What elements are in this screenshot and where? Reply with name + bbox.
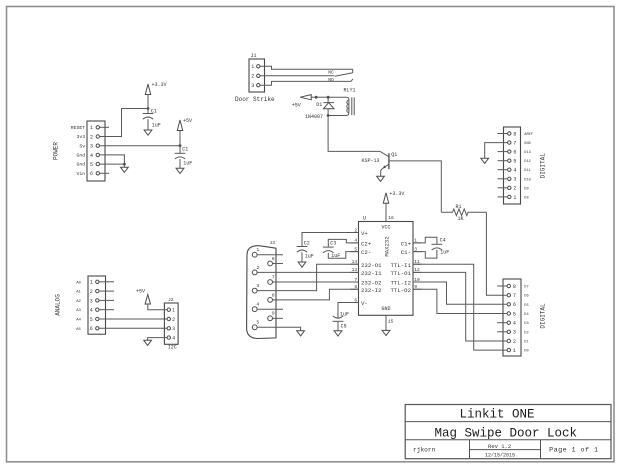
svg-text:D7: D7 xyxy=(524,286,528,290)
svg-text:1: 1 xyxy=(513,348,516,354)
svg-text:D5: D5 xyxy=(524,304,528,308)
label DIGITAL (vertical, top) xyxy=(540,153,547,179)
svg-text:5: 5 xyxy=(513,311,516,317)
wire J3 pin1 stub xyxy=(257,254,283,256)
svg-text:D12: D12 xyxy=(524,160,530,164)
ground (J3 pin5) xyxy=(297,331,305,336)
svg-text:U: U xyxy=(363,215,366,221)
label ANALOG (vertical) xyxy=(55,294,62,316)
relay RLY1 coil xyxy=(344,87,356,115)
ground (below C5) xyxy=(334,331,342,336)
svg-text:TTL-O1: TTL-O1 xyxy=(391,270,412,277)
wire DIGITAL1 pin8 stub xyxy=(498,133,508,135)
wire DIGITAL2 pin4 stub xyxy=(497,322,507,324)
svg-text:9: 9 xyxy=(272,311,275,317)
wire U1 TTL-O2 to DIGITAL2 pin5 (D4) xyxy=(413,289,507,313)
svg-text:RESET: RESET xyxy=(71,125,86,131)
ground (below C1 at +3.3V) xyxy=(144,130,152,135)
svg-text:8: 8 xyxy=(513,284,516,290)
svg-text:MAX232: MAX232 xyxy=(383,236,390,256)
svg-text:1N4007: 1N4007 xyxy=(305,114,323,120)
wire POWER pin4 to ground xyxy=(100,155,125,164)
svg-text:Door Strike: Door Strike xyxy=(235,96,275,103)
svg-text:232-O1: 232-O1 xyxy=(361,262,382,269)
svg-text:7: 7 xyxy=(513,141,516,147)
wire J3 pin8 to U1 232-I2 xyxy=(273,289,359,300)
svg-text:4: 4 xyxy=(172,336,175,342)
ground (U1 GND pin15) xyxy=(382,323,390,336)
svg-text:2: 2 xyxy=(90,289,93,295)
wire DIGITAL1 pin2 stub xyxy=(498,187,508,189)
svg-text:C5: C5 xyxy=(341,324,347,330)
wire J1 pin1 to relay common xyxy=(260,66,353,69)
wire DIGITAL1 pin5 stub xyxy=(498,160,508,162)
svg-text:4: 4 xyxy=(256,302,259,308)
svg-text:D13: D13 xyxy=(524,151,530,155)
svg-text:GND: GND xyxy=(381,306,390,312)
svg-text:Mag Swipe Door Lock: Mag Swipe Door Lock xyxy=(435,426,578,440)
svg-text:C4: C4 xyxy=(440,238,446,244)
svg-text:+3.3V: +3.3V xyxy=(389,191,404,197)
svg-text:12/15/2015: 12/15/2015 xyxy=(485,452,515,458)
wire U1 V+ to C2 xyxy=(302,233,359,247)
svg-text:Gnd: Gnd xyxy=(77,162,86,168)
wire DIGITAL1 pin3 stub xyxy=(498,178,508,180)
svg-text:3: 3 xyxy=(256,283,259,289)
svg-text:3: 3 xyxy=(172,326,175,332)
svg-text:C1+: C1+ xyxy=(401,241,412,248)
svg-text:C1: C1 xyxy=(151,109,157,115)
relay NO contact tick xyxy=(351,79,353,81)
svg-text:J1: J1 xyxy=(251,53,257,59)
svg-text:6: 6 xyxy=(90,326,93,332)
svg-text:8: 8 xyxy=(513,131,516,137)
svg-text:3: 3 xyxy=(513,177,516,183)
svg-text:1uF: 1uF xyxy=(305,253,314,259)
svg-text:D1: D1 xyxy=(524,341,528,345)
wire U1 C1+ to C4 xyxy=(413,237,437,244)
wire DIGITAL1 pin4 stub xyxy=(498,169,508,171)
svg-text:5: 5 xyxy=(90,162,93,168)
svg-text:J3: J3 xyxy=(270,240,276,246)
svg-text:2: 2 xyxy=(256,265,259,271)
svg-text:A0: A0 xyxy=(76,281,81,285)
ground (I2C pin4) xyxy=(144,340,152,345)
wire POWER pin5 to ground xyxy=(100,163,125,165)
svg-text:7: 7 xyxy=(513,293,516,299)
svg-text:1: 1 xyxy=(90,280,93,286)
wire U1 TTL-I1 to DIGITAL2 pin1 (D0) xyxy=(413,264,507,350)
svg-text:A2: A2 xyxy=(76,300,81,304)
svg-text:VCC: VCC xyxy=(381,225,390,231)
wire DIGITAL2 pin3 stub xyxy=(497,331,507,333)
svg-text:2: 2 xyxy=(172,317,175,323)
svg-text:D1: D1 xyxy=(316,102,322,108)
svg-text:NC: NC xyxy=(328,70,334,76)
svg-text:C2+: C2+ xyxy=(361,241,372,248)
wire POWER pin1 stub xyxy=(100,126,110,128)
wire U1 TTL-O1 to DIGITAL2 pin2 (D1) xyxy=(413,272,507,341)
wire ANALOG pin1 stub xyxy=(99,281,114,283)
svg-text:C3: C3 xyxy=(330,241,336,247)
svg-text:5: 5 xyxy=(256,320,259,326)
resistor R1 1K xyxy=(441,204,486,222)
svg-text:4: 4 xyxy=(90,153,93,159)
power +5V (near POWER) xyxy=(177,118,192,146)
power +5V (door strike) xyxy=(292,95,316,109)
svg-text:16: 16 xyxy=(388,215,394,221)
ground (Q1 emitter) xyxy=(377,176,385,181)
svg-text:1uF: 1uF xyxy=(440,250,449,256)
svg-text:POWER: POWER xyxy=(53,142,60,160)
wire C4 to U1 C1- xyxy=(413,250,437,258)
capacitor C1 (at +5V rail) xyxy=(175,146,193,169)
ground (POWER pins 4/5) xyxy=(121,164,129,172)
svg-text:Vin: Vin xyxy=(77,171,86,177)
wire R1 to DIGITAL2 pin7 (D6) xyxy=(486,212,507,295)
svg-text:KSP-13: KSP-13 xyxy=(362,158,380,164)
connector J1 Door Strike (3-pin) xyxy=(249,53,265,92)
diode D1 1N4007 xyxy=(305,97,334,120)
wire relay coil bottom to D1/Q1 xyxy=(328,115,346,117)
svg-text:RLY1: RLY1 xyxy=(344,87,356,93)
wire DIGITAL1 pin7 GND to ground xyxy=(485,143,508,159)
svg-text:C2: C2 xyxy=(304,240,310,246)
transistor Q1 KSP-13 xyxy=(362,151,398,176)
svg-text:AREF: AREF xyxy=(524,133,533,137)
label DIGITAL (vertical, bottom) xyxy=(540,303,547,329)
wire relay coil top to +5V/D1 xyxy=(328,96,346,98)
svg-text:D11: D11 xyxy=(524,169,530,173)
svg-text:1: 1 xyxy=(172,308,175,314)
svg-text:2: 2 xyxy=(90,134,93,140)
svg-text:3v3: 3v3 xyxy=(77,134,86,140)
svg-text:D3: D3 xyxy=(524,322,528,326)
svg-text:Q1: Q1 xyxy=(391,152,397,158)
wire J3 pin9 stub xyxy=(273,317,283,319)
power +3.3V (U1 VCC pin16) xyxy=(383,191,404,213)
svg-text:V-: V- xyxy=(361,300,368,307)
svg-text:2: 2 xyxy=(251,74,254,80)
svg-text:+5V: +5V xyxy=(183,118,192,124)
svg-text:4: 4 xyxy=(90,308,93,314)
wire J3 pin6 stub xyxy=(273,263,283,265)
svg-text:+5V: +5V xyxy=(136,288,145,294)
title block xyxy=(405,405,611,459)
svg-text:6: 6 xyxy=(513,150,516,156)
svg-text:I2C: I2C xyxy=(168,344,177,350)
connector J2 I2C (4-pin) xyxy=(164,297,178,350)
svg-text:232-O2: 232-O2 xyxy=(361,280,382,287)
label POWER (vertical) xyxy=(53,142,60,160)
connector CONN3 DIGITAL D8-D13 (8-pin header) xyxy=(504,127,533,204)
svg-text:D8: D8 xyxy=(524,196,528,200)
wire J3 pin5 to ground xyxy=(257,327,300,330)
svg-text:TTL-I2: TTL-I2 xyxy=(391,280,412,287)
svg-text:+5V: +5V xyxy=(292,103,301,109)
svg-text:232-I1: 232-I1 xyxy=(361,270,382,277)
svg-text:ANALOG: ANALOG xyxy=(55,294,62,316)
svg-text:rjkorn: rjkorn xyxy=(413,446,436,453)
wire POWER pin6 stub xyxy=(100,172,110,174)
svg-text:1K: 1K xyxy=(458,216,464,222)
svg-text:6: 6 xyxy=(90,171,93,177)
op-amp U1 MAX232 (RS232 transceiver) xyxy=(350,213,421,324)
svg-text:Rev 1.2: Rev 1.2 xyxy=(488,443,511,450)
wire ANALOG pin3 stub xyxy=(99,299,114,301)
node junction D1 anode xyxy=(327,114,330,117)
svg-text:DIGITAL: DIGITAL xyxy=(540,153,547,179)
wire U1 C2+ to C3 xyxy=(328,239,358,247)
svg-text:4: 4 xyxy=(513,321,516,327)
svg-text:1: 1 xyxy=(90,125,93,131)
svg-text:4: 4 xyxy=(513,168,516,174)
wire U1 TTL-I2 to DIGITAL2 pin6 (D5) xyxy=(413,282,507,304)
svg-text:2: 2 xyxy=(513,339,516,345)
relay armature xyxy=(335,73,353,76)
wire ANALOG pin4 stub xyxy=(99,309,114,311)
label NC xyxy=(328,70,334,76)
connector J3 DB9 serial xyxy=(247,240,276,338)
svg-text:NO: NO xyxy=(328,77,334,83)
wire I2C pin4 to ground xyxy=(148,338,168,341)
wire Q1 base to R1 xyxy=(389,161,441,212)
svg-text:A1: A1 xyxy=(76,291,81,295)
wire J1 pin2 to relay NC xyxy=(260,75,335,77)
svg-text:5v: 5v xyxy=(79,143,85,149)
svg-text:3: 3 xyxy=(513,330,516,336)
svg-text:6: 6 xyxy=(513,302,516,308)
svg-text:1uF: 1uF xyxy=(183,161,192,167)
svg-text:A5: A5 xyxy=(76,328,81,332)
node junction D1 cathode xyxy=(327,96,330,99)
svg-text:6: 6 xyxy=(272,256,275,262)
svg-text:C1: C1 xyxy=(182,147,188,153)
wire DIGITAL1 pin1 stub xyxy=(498,196,508,198)
label Door Strike xyxy=(235,96,275,103)
capacitor C3 1uF xyxy=(323,241,340,260)
svg-text:3: 3 xyxy=(90,298,93,304)
svg-text:A3: A3 xyxy=(76,309,81,313)
svg-text:D0: D0 xyxy=(524,350,528,354)
wire POWER pin3 to +5V rail xyxy=(100,145,181,147)
label NO xyxy=(328,77,334,83)
connector CONN1 POWER (6-pin header) xyxy=(71,121,105,181)
node junction +5V/C1 xyxy=(179,144,182,147)
svg-text:1: 1 xyxy=(256,247,259,253)
svg-text:D10: D10 xyxy=(524,178,530,182)
svg-text:R1: R1 xyxy=(456,204,462,210)
svg-text:5: 5 xyxy=(90,317,93,323)
capacitor C4 1uF xyxy=(432,238,450,256)
wire J3 pin3 to U1 232-O1 xyxy=(257,264,358,290)
svg-text:Page 1 of 1: Page 1 of 1 xyxy=(549,447,598,455)
svg-text:GND: GND xyxy=(524,142,530,146)
svg-text:232-I2: 232-I2 xyxy=(361,287,382,294)
svg-text:5: 5 xyxy=(513,159,516,165)
svg-text:1: 1 xyxy=(513,195,516,201)
wire ANALOG pin2 stub xyxy=(99,290,114,292)
svg-text:TTL-I1: TTL-I1 xyxy=(391,262,412,269)
wire C3 to U1 C2- xyxy=(328,252,358,259)
svg-text:1: 1 xyxy=(251,64,254,70)
wire POWER pin2 to +3.3V rail xyxy=(100,109,149,137)
wire DIGITAL1 pin6 stub xyxy=(498,151,508,153)
svg-text:8: 8 xyxy=(272,292,275,298)
wire J3 pin7 to U1 232-O2 xyxy=(273,281,359,283)
capacitor C2 1uF xyxy=(297,240,314,262)
node junction +3.3V/C1 xyxy=(147,107,150,110)
connector CONN4 DIGITAL D0-D7 (8-pin header) xyxy=(503,279,529,356)
wire D1/coil to Q1 collector xyxy=(328,116,380,152)
svg-text:3: 3 xyxy=(90,144,93,150)
wire J3 pin4 stub xyxy=(257,308,283,310)
wire ANALOG pin6 to I2C pin3 xyxy=(99,327,167,329)
svg-text:3: 3 xyxy=(251,83,254,89)
ground (below C1 at +5V) xyxy=(176,168,184,173)
capacitor C1 (at +3.3V rail) xyxy=(143,109,161,131)
svg-text:V+: V+ xyxy=(361,230,368,237)
svg-text:DIGITAL: DIGITAL xyxy=(540,303,547,329)
node junction +5V wire xyxy=(315,96,328,99)
svg-text:C1-: C1- xyxy=(401,249,411,256)
svg-text:Gnd: Gnd xyxy=(77,153,86,159)
svg-text:TTL-O2: TTL-O2 xyxy=(391,287,412,294)
capacitor C5 1uF (U1 V-) xyxy=(333,303,359,331)
ground (DIGITAL1 pin7) xyxy=(481,158,489,163)
relay common contact tick xyxy=(352,69,354,73)
connector CONN2 ANALOG (6-pin header) xyxy=(76,276,105,334)
wire J3 pin2 to U1 232-I1 xyxy=(257,271,358,273)
svg-text:D4: D4 xyxy=(524,313,528,317)
svg-text:D6: D6 xyxy=(524,295,528,299)
svg-text:1uF: 1uF xyxy=(340,311,349,317)
ground (below C2) xyxy=(298,262,306,267)
svg-text:15: 15 xyxy=(388,319,394,325)
svg-text:J2: J2 xyxy=(168,297,174,303)
svg-text:2: 2 xyxy=(513,186,516,192)
wire DIGITAL2 pin8 stub xyxy=(497,285,507,287)
svg-text:Linkit ONE: Linkit ONE xyxy=(459,407,534,421)
svg-text:D2: D2 xyxy=(524,331,528,335)
wire ANALOG pin5 to I2C pin2 xyxy=(99,318,167,320)
svg-text:7: 7 xyxy=(272,274,275,280)
svg-text:+3.3V: +3.3V xyxy=(152,82,167,88)
wire J1 pin3 to relay NO xyxy=(260,81,351,85)
power +5V (I2C pin1) xyxy=(136,288,167,309)
node junction POWER gnd xyxy=(123,163,126,166)
power +3.3V (near POWER) xyxy=(145,82,166,109)
svg-text:1uF: 1uF xyxy=(152,122,161,128)
svg-text:D9: D9 xyxy=(524,187,528,191)
svg-text:A4: A4 xyxy=(76,319,81,323)
svg-text:C2-: C2- xyxy=(361,249,371,256)
